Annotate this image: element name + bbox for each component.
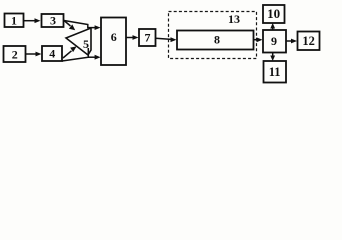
svg-text:8: 8 <box>214 33 220 47</box>
svg-text:9: 9 <box>271 34 277 48</box>
svg-text:3: 3 <box>50 14 56 28</box>
svg-text:11: 11 <box>269 65 281 79</box>
svg-text:2: 2 <box>12 48 18 62</box>
svg-text:4: 4 <box>49 47 55 61</box>
svg-text:7: 7 <box>145 31 151 45</box>
svg-text:10: 10 <box>267 6 280 21</box>
svg-text:13: 13 <box>228 12 240 26</box>
svg-text:12: 12 <box>302 34 315 48</box>
svg-text:5: 5 <box>83 37 89 51</box>
svg-text:6: 6 <box>111 30 117 44</box>
svg-text:1: 1 <box>11 14 17 28</box>
